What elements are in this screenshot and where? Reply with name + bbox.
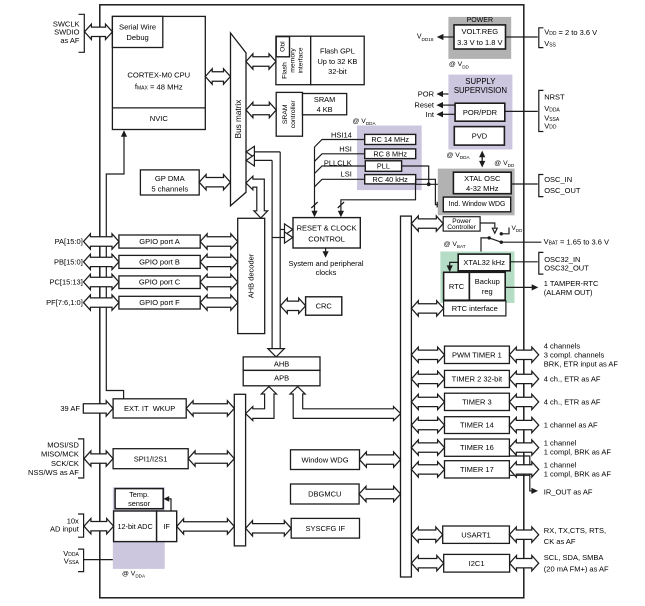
label System and peripheral clocks [288,259,363,277]
label Reset arrow [414,101,455,110]
svg-text:PA[15:0]: PA[15:0] [55,237,83,246]
block SRAM controller [276,92,302,136]
svg-text:reg: reg [482,287,493,296]
bus matrix trapezoid [231,33,247,206]
label 1 TAMPER-RTC (ALARM OUT) [544,279,599,297]
arrow USART1 to pins [509,527,538,542]
svg-text:4 ch., ETR as AF: 4 ch., ETR as AF [544,374,601,383]
block Serial Wire Debug [112,16,162,47]
wire LSI RC40k to IWDG [416,179,444,207]
svg-text:PB[15:0]: PB[15:0] [54,257,83,266]
block GPIO port F [119,296,200,309]
svg-text:SUPPLY: SUPPLY [465,77,496,86]
arrow SPI1 to left bus [188,451,234,466]
arrow EXT IT to left bus [186,401,234,416]
label IR_OUT as AF [544,488,593,497]
block TIMER 16 [445,439,510,456]
svg-text:PF[7:6,1:0]: PF[7:6,1:0] [46,298,83,307]
svg-text:4 ch., ETR as AF: 4 ch., ETR as AF [544,397,601,406]
svg-text:12-bit ADC: 12-bit ADC [117,522,152,531]
block USART1 [443,526,510,543]
bus left APB vertical [234,394,245,546]
svg-text:TIMER 14: TIMER 14 [460,421,494,430]
wire bus matrix to RCC upper [246,146,293,348]
block GPIO port C [119,276,200,289]
svg-text:DBGMCU: DBGMCU [308,490,341,499]
block PVD [454,127,504,146]
svg-text:XTAL32 kHz: XTAL32 kHz [463,258,505,267]
label @ VBAT [444,241,466,249]
block AHB decoder [238,218,265,333]
block POWER (grey) [448,17,511,59]
arrow supervision to xtal block (vertical double) [479,151,485,168]
arrow CPU to bus matrix [205,69,230,84]
svg-text:RESET & CLOCK: RESET & CLOCK [297,224,357,233]
svg-text:(20 mA FM+) as AF: (20 mA FM+) as AF [544,564,609,573]
svg-text:clocks: clocks [316,268,337,277]
block CORTEX-M0 CPU [112,16,205,129]
svg-text:4 channels: 4 channels [544,341,581,350]
bus right APB vertical [401,216,412,577]
arrow GPIO port C to AHB decoder [200,274,238,289]
label Int arrow [426,110,455,119]
arrow TIMER 2 32-bit to pins [509,371,538,386]
svg-text:POWER: POWER [467,17,493,24]
block TIMER 17 [445,461,510,478]
svg-text:TIMER 2 32-bit: TIMER 2 32-bit [452,374,503,383]
arrow SWD to Serial Wire Debug [85,24,113,39]
arrow PWM TIMER 1 to pins [509,347,538,362]
svg-text:1 TAMPER-RTC: 1 TAMPER-RTC [544,279,599,288]
block SPI1/I2S1 [113,449,188,469]
svg-text:sensor: sensor [128,499,150,508]
arrow left bus to SYSCFG IF [246,521,292,536]
block TIMER 3 [445,393,510,410]
arrow ADC IF to left bus [177,519,235,534]
svg-text:GPIO port B: GPIO port B [139,257,180,266]
svg-text:controller: controller [290,100,297,129]
label OSC_IN OSC_OUT bracket [539,175,581,197]
svg-text:TIMER 16: TIMER 16 [460,443,494,452]
svg-text:GP DMA: GP DMA [155,174,186,183]
svg-text:AHB: AHB [274,359,289,368]
arrowhead into AHB bridge [268,349,285,357]
svg-text:OSC32_IN: OSC32_IN [544,255,580,264]
svg-text:CK as AF: CK as AF [544,537,576,546]
label pins PWM TIMER 1 [544,341,619,368]
svg-text:Controller: Controller [447,224,476,231]
wire PLLCLK to RCC [315,166,366,174]
wire VBAT line [501,241,541,243]
block EXT. IT WKUP [113,399,186,418]
wire bus matrix to RCC lower [246,155,293,349]
svg-text:MOSI/SD: MOSI/SD [47,441,79,450]
label USART1 pins [544,526,606,546]
block RC 8 MHz [365,149,416,159]
label PA[15:0] [55,237,83,246]
svg-text:Reset: Reset [414,101,435,110]
svg-text:Bus matrix: Bus matrix [234,100,243,139]
svg-text:RC 14 MHz: RC 14 MHz [371,135,409,144]
svg-text:PC[15:13]: PC[15:13] [49,278,82,287]
label 10x AD input with bracket [50,514,84,537]
arrow right bus to Power Controller [411,216,443,231]
label @ VDD right of arrow [494,160,515,168]
svg-text:TIMER 17: TIMER 17 [460,465,494,474]
wire power controller to switch [480,223,495,228]
arrow right bus to TIMER 3 [411,394,444,409]
wire IR_OUT from TIMER16/17 [509,456,538,494]
wire HSI14 to RCC [315,140,365,148]
switch blade [488,236,503,244]
block Flash GPL [311,36,365,84]
block PWM TIMER 1 [445,346,510,363]
svg-text:SCL, SDA, SMBA: SCL, SDA, SMBA [544,553,604,562]
svg-text:Flash: Flash [282,62,289,79]
wire NVIC interrupt line (EXT IT WKUP to NVIC) [106,130,127,399]
block XTAL OSC (grey) [438,169,515,216]
svg-text:MISO/MCK: MISO/MCK [41,450,79,459]
block CRC [306,297,342,315]
junction dot VDD [500,232,503,235]
arrow pins to GPIO port C [84,274,119,289]
arrow TIMER 17 to pins [509,462,538,477]
block Window WDG [291,450,360,470]
block POR/PDR [455,103,505,121]
block XTAL OSC box [453,172,511,194]
svg-text:NVIC: NVIC [150,114,169,123]
arrow right bus to TIMER 14 [411,417,444,432]
label pins TIMER 2 32-bit [544,374,601,383]
svg-text:NSS/WS as AF: NSS/WS as AF [28,468,79,477]
arrow pins to GPIO port F [84,295,119,310]
svg-text:Up to 32 KB: Up to 32 KB [317,57,357,66]
svg-text:RC 8 MHz: RC 8 MHz [373,149,407,158]
arrow GPIO port A to AHB decoder [200,234,238,249]
label VDD VSS bracket [539,28,597,49]
arrow GP DMA to bus matrix [199,175,230,190]
label PF[7:6,1:0] [46,298,83,307]
svg-text:Temp.: Temp. [129,490,149,499]
wire switch to backup domain [481,238,489,254]
svg-text:EXT. IT WKUP: EXT. IT WKUP [124,404,175,413]
block SYSCFG IF [291,518,359,538]
svg-text:USART1: USART1 [461,530,490,539]
arrow right bus to PWM TIMER 1 [411,347,444,362]
label PLLCLK [324,158,352,167]
svg-text:1 channel: 1 channel [544,460,577,469]
block RC 14 MHz [365,134,416,144]
svg-text:RTC: RTC [449,282,465,291]
svg-text:CRC: CRC [316,302,333,311]
svg-text:Window WDG: Window WDG [301,455,348,464]
svg-text:1 channel as AF: 1 channel as AF [544,421,598,430]
frame / chip boundary [100,5,524,598]
svg-text:39 AF: 39 AF [60,404,80,413]
svg-text:CONTROL: CONTROL [308,235,345,244]
arrow pins to GPIO port A [84,234,119,249]
arrow SPI pins to SPI1 [84,451,113,466]
svg-text:LSI: LSI [341,170,352,179]
svg-text:AHB decoder: AHB decoder [247,253,256,298]
svg-text:memory: memory [290,48,297,73]
block GPIO port A [119,235,200,248]
block Ind. Window WDG [443,197,510,212]
svg-text:1 compl, BRK as AF: 1 compl, BRK as AF [544,469,612,478]
svg-text:Int: Int [426,110,435,119]
block I2C1 [444,554,510,572]
label OSC32_IN OSC32_OUT bracket [539,252,589,274]
svg-text:POR: POR [418,90,435,99]
svg-text:4-32 MHz: 4-32 MHz [466,184,499,193]
block RC 40 kHz [365,175,416,184]
wire VDD to VOLT.REG [506,36,538,38]
label @ VDDA below ADC [122,571,146,579]
wire OSC group down-left into RCC with bus tick [338,179,416,217]
label @ VDDA above clocks [353,118,377,126]
block RTC interface [444,301,506,316]
svg-text:HSI14: HSI14 [331,131,352,140]
label PC[15:13] [49,278,82,287]
wire POR/PDR to NRST pins [505,110,538,112]
svg-text:CORTEX-M0 CPU: CORTEX-M0 CPU [127,71,190,80]
block ADC IF [157,511,177,542]
svg-text:NRST: NRST [544,93,565,102]
arrow bus matrix to flash interface [246,54,276,69]
arrow I2C1 to pins [510,556,539,571]
svg-text:Ind. Window WDG: Ind. Window WDG [449,201,506,208]
arrow right bus to TIMER 2 32-bit [411,371,444,386]
arrow pins to GPIO port B [84,254,119,269]
svg-text:OSC_OUT: OSC_OUT [544,186,581,195]
label HSI14 [331,131,352,140]
arrow bus matrix to AHB decoder (elbow) [246,176,268,218]
svg-text:32-bit: 32-bit [328,67,347,76]
wire ADC IF to Temp sensor [163,496,171,511]
svg-text:Backup: Backup [475,277,500,286]
svg-text:Debug: Debug [126,33,148,42]
wire XTAL32 to OSC32 pins [510,261,538,263]
label NRST VDDA VSSA VDD bracket [539,90,565,131]
block Flash memory interface [276,36,311,84]
svg-text:1 compl, BRK as AF: 1 compl, BRK as AF [544,448,612,457]
label PB[15:0] [54,257,83,266]
svg-text:GPIO port C: GPIO port C [139,278,181,287]
svg-text:4 KB: 4 KB [317,105,333,114]
block Power Controller [443,217,480,231]
label LSI [341,170,352,179]
svg-text:SRAM: SRAM [282,104,289,124]
svg-text:RX, TX,CTS, RTS,: RX, TX,CTS, RTS, [544,526,606,535]
svg-text:IF: IF [163,522,170,531]
block clock oscillators background [357,126,422,191]
svg-text:3.3 V to 1.8 V: 3.3 V to 1.8 V [457,38,502,47]
svg-text:PLL: PLL [377,162,390,171]
label HSI [339,144,352,153]
block 12-bit ADC [114,511,157,542]
block SRAM 4KB [303,94,347,115]
svg-text:RTC interface: RTC interface [452,304,498,313]
wire VDDA supply to ADC block [84,559,113,561]
svg-text:HSI: HSI [339,144,352,153]
arrow right bus to RTC interface [411,301,443,316]
svg-text:OSC32_OUT: OSC32_OUT [544,264,589,273]
label VDD18 output [417,34,454,42]
block GP DMA 5 channels [140,170,199,195]
arrow APB to left peripheral bus (elbow) [246,387,277,421]
arrow bus matrix to SRAM controller [246,102,276,117]
svg-text:5 channels: 5 channels [151,185,188,194]
label pins TIMER 16 [544,439,612,457]
arrow APB to right peripheral bus (elbow) [290,387,401,421]
block GPIO port B [119,255,200,268]
svg-text:TIMER 3: TIMER 3 [462,397,492,406]
wire Backup reg to TAMPER pin [505,284,538,290]
block RTC domain (green) [440,252,514,304]
svg-text:PWM TIMER 1: PWM TIMER 1 [452,350,502,359]
wire PLL to OSC junction [402,166,429,184]
svg-text:IR_OUT as AF: IR_OUT as AF [544,488,593,497]
arrow AD input to ADC [84,519,114,534]
arrow right bus to TIMER 16 [411,440,444,455]
arrow TIMER 14 to pins [509,417,538,432]
label pins TIMER 3 [544,397,601,406]
svg-text:SRAM: SRAM [314,95,335,104]
svg-text:APB: APB [274,374,289,383]
label VBAT = 1.65 to 3.6 V [544,237,609,246]
svg-text:GPIO port A: GPIO port A [139,237,179,246]
block XTAL32 kHz [458,254,510,271]
label I2C1 pins [544,553,609,573]
svg-text:XTAL OSC: XTAL OSC [464,174,501,183]
svg-text:POR/PDR: POR/PDR [463,108,498,117]
svg-text:Serial Wire: Serial Wire [119,22,156,31]
svg-text:SYSCFG IF: SYSCFG IF [306,524,346,533]
block Backup reg [469,272,505,300]
wire HSI to RCC [315,154,365,162]
block SUPPLY SUPERVISION (purple) [448,75,512,150]
svg-text:AD input: AD input [50,524,80,533]
svg-text:BRK, ETR input as AF: BRK, ETR input as AF [544,359,619,368]
wire XTAL32 to RTC [447,262,459,272]
svg-text:as AF: as AF [60,36,80,45]
wire XTAL OSC to junction [416,183,454,185]
svg-text:SPI1/I2S1: SPI1/I2S1 [134,454,168,463]
arrow GPIO port F to AHB decoder [200,295,238,310]
arrow 39 AF to EXT IT [83,401,113,416]
svg-text:RC 40 kHz: RC 40 kHz [373,175,409,184]
wire LSI to RCC [315,179,365,187]
arrow Window WDG to right bus [360,452,401,467]
svg-text:interface: interface [298,47,305,73]
wire XTAL OSC to OSC pins [511,183,538,185]
svg-text:OSC_IN: OSC_IN [544,175,572,184]
label VDDA VSSA with bracket [63,549,83,572]
label @ VDDA under supervision [447,152,471,160]
arrow TIMER 16 to pins [509,440,538,455]
block ADC purple background [113,487,165,569]
block RTC [444,272,470,300]
arrow GPIO port B to AHB decoder [200,254,238,269]
svg-text:SCK/CK: SCK/CK [51,459,79,468]
block PLL [365,161,401,172]
svg-text:System and peripheral: System and peripheral [288,259,363,268]
arrow DBGMCU to right bus [359,486,400,501]
svg-text:GPIO port F: GPIO port F [139,298,180,307]
arrowhead VDD into switch (open) [492,228,497,233]
wire VDD label to switch [501,225,522,234]
label pins TIMER 17 [544,460,612,478]
block TIMER 14 [445,417,510,434]
svg-text:1 channel: 1 channel [544,439,577,448]
block RESET & CLOCK CONTROL [293,218,360,248]
arrow AHB to CRC [280,298,305,313]
block VOLT.REG [454,25,506,49]
svg-text:(ALARM OUT): (ALARM OUT) [544,288,593,297]
label SWCLK SWDIO as AF with bracket [53,14,84,52]
arrow RCC to system clocks [323,248,329,258]
svg-text:I2C1: I2C1 [469,559,485,568]
junction dot OSC [427,182,431,186]
label MOSI MISO SCK NSS with bracket [28,439,84,478]
svg-text:3 compl. channels: 3 compl. channels [544,350,605,359]
label 39 AF [60,404,80,413]
arrow right bus to TIMER 17 [411,462,444,477]
block TIMER 2 32-bit [445,370,510,387]
block AHB [243,357,320,371]
label POR arrow [418,90,449,99]
svg-text:SUPERVISION: SUPERVISION [454,86,507,95]
svg-text:VOLT.REG: VOLT.REG [462,27,499,36]
arrow right bus to I2C1 [411,556,443,571]
wire clock bus down to RCC with bus tick [311,147,317,217]
block DBGMCU [291,484,360,504]
svg-text:Obl: Obl [280,41,287,52]
block Obl [276,37,289,57]
label @ VDD under POWER [449,61,470,69]
block APB [243,370,320,385]
arrow TIMER 3 to pins [509,394,538,409]
block Temp sensor [115,489,163,509]
svg-text:Flash GPL: Flash GPL [320,47,355,56]
arrow right bus to USART1 [411,527,442,542]
svg-text:PVD: PVD [472,132,488,141]
label pins TIMER 14 [544,421,598,430]
